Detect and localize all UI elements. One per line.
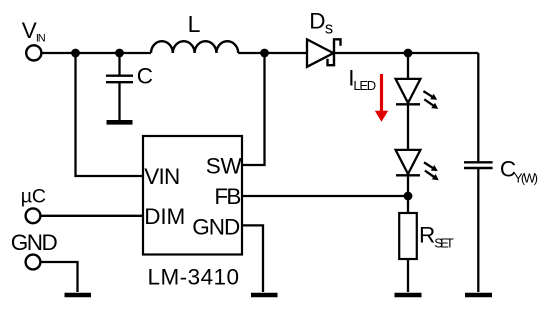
svg-text:SET: SET xyxy=(434,235,454,250)
svg-text:LED: LED xyxy=(353,78,376,93)
wire right rail xyxy=(477,53,479,162)
node junction FB xyxy=(404,192,413,201)
label V_IN xyxy=(22,18,46,44)
wire DIM pin xyxy=(41,215,144,217)
svg-text:R: R xyxy=(419,222,435,247)
wire diode to right corner xyxy=(334,52,478,54)
current arrow I_LED (red) xyxy=(375,74,388,122)
node junction top-2 xyxy=(115,49,124,58)
ground (RSET) xyxy=(395,293,422,298)
svg-text:V: V xyxy=(22,18,37,43)
LED D2 xyxy=(396,150,421,175)
wire VIN pin xyxy=(76,53,144,176)
wire top to LED1 xyxy=(407,53,409,79)
label Ds xyxy=(309,8,333,37)
svg-text:Y(W): Y(W) xyxy=(514,171,538,186)
svg-text:GND: GND xyxy=(11,230,58,255)
wire GND terminal xyxy=(41,262,78,292)
terminal GND xyxy=(26,255,41,270)
wire top rail left xyxy=(42,52,151,54)
svg-text:FB: FB xyxy=(214,184,241,209)
svg-text:D: D xyxy=(309,8,325,33)
svg-text:DIM: DIM xyxy=(144,204,185,229)
terminal uC xyxy=(26,208,41,223)
svg-text:µC: µC xyxy=(21,185,46,207)
wire LED1 to LED2 xyxy=(407,104,409,149)
svg-text:SW: SW xyxy=(206,154,243,179)
capacitor C xyxy=(106,53,133,121)
node junction LED-top xyxy=(404,49,413,58)
LED D2 emission arrows xyxy=(424,162,439,180)
wire LED2 to FB node xyxy=(407,175,409,213)
svg-text:VIN: VIN xyxy=(144,164,180,189)
svg-text:GND: GND xyxy=(192,215,240,240)
ground (under C) xyxy=(107,120,133,125)
wire FB pin xyxy=(242,195,408,197)
svg-text:C: C xyxy=(137,64,153,89)
node junction SW-tap xyxy=(260,49,269,58)
diode Ds (schottky) xyxy=(307,39,341,67)
svg-text:L: L xyxy=(188,11,201,37)
wire GND pin xyxy=(242,225,263,292)
ground (right rail) xyxy=(465,293,492,298)
inductor L xyxy=(151,41,238,53)
label R_SET xyxy=(419,222,454,250)
node junction top-1 xyxy=(71,49,80,58)
IC U1 LM-3410 xyxy=(143,136,242,255)
terminal VIN xyxy=(26,45,41,60)
label C_Y(W) xyxy=(500,157,538,186)
svg-text:s: s xyxy=(325,20,333,38)
svg-text:LM-3410: LM-3410 xyxy=(148,264,240,289)
wire inductor to diode xyxy=(238,52,307,54)
LED D1 emission arrows xyxy=(423,91,438,109)
wire RSET to ground xyxy=(407,259,409,292)
wire SW pin xyxy=(242,53,265,165)
ground (GND terminal) xyxy=(65,293,92,298)
ground (IC GND) xyxy=(251,293,278,298)
LED D1 xyxy=(396,79,421,104)
label I_LED xyxy=(348,66,376,94)
svg-text:IN: IN xyxy=(36,33,46,45)
capacitor CY(W) xyxy=(464,162,493,292)
resistor RSET xyxy=(399,213,417,259)
